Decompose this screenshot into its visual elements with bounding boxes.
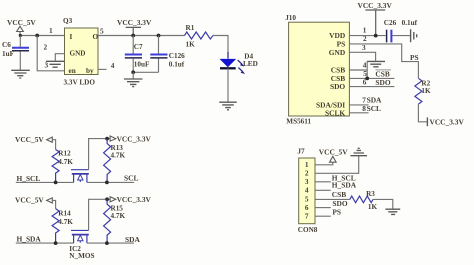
resistor R1 bbox=[185, 24, 213, 49]
wire H_SCL bbox=[16, 181, 74, 183]
svg-text:4: 4 bbox=[111, 61, 115, 70]
ground (LED) bbox=[219, 102, 237, 110]
junction (R15/SDA) bbox=[105, 241, 109, 245]
svg-text:R12: R12 bbox=[58, 150, 71, 158]
svg-text:en: en bbox=[69, 67, 76, 75]
svg-text:GND: GND bbox=[70, 50, 86, 58]
svg-text:0.1uf: 0.1uf bbox=[169, 61, 185, 69]
svg-text:N_MOS: N_MOS bbox=[69, 252, 94, 260]
wire CON8 pin2 to ground bbox=[315, 156, 359, 173]
resistor R13 bbox=[104, 139, 126, 183]
svg-text:J7: J7 bbox=[297, 146, 305, 155]
svg-text:1K: 1K bbox=[421, 87, 431, 95]
svg-text:4.7K: 4.7K bbox=[111, 212, 126, 220]
wire CON8 pin3 bbox=[315, 181, 331, 183]
wire gate to VCC_3.3V rail (lower) bbox=[89, 199, 110, 230]
junction (C126 tap) bbox=[157, 34, 161, 38]
svg-text:2: 2 bbox=[363, 34, 367, 43]
power VCC_3.3V port (J10 top) bbox=[358, 1, 393, 36]
wire J10 pin4 CSB to ground bar and down to pin5 bbox=[349, 61, 367, 78]
svg-text:Q3: Q3 bbox=[63, 17, 73, 25]
junction (C7 tap) bbox=[131, 34, 135, 38]
power VCC_5V port (upper shifter) bbox=[15, 135, 56, 150]
wire ground drop bbox=[132, 72, 134, 78]
svg-text:VCC_3.3V: VCC_3.3V bbox=[117, 18, 152, 27]
wire regulator pin 4 stub (by) bbox=[98, 68, 107, 70]
svg-text:I: I bbox=[70, 33, 73, 41]
ground (J10 pin3) bbox=[367, 61, 385, 66]
svg-text:SDA: SDA bbox=[125, 235, 140, 244]
power VCC_5V port (lower shifter) bbox=[15, 196, 56, 209]
power VCC_3.3V port (lower shifter) bbox=[110, 195, 151, 204]
svg-text:1uF: 1uF bbox=[2, 50, 15, 58]
svg-text:7: 7 bbox=[305, 212, 309, 221]
resistor R2 bbox=[415, 78, 431, 104]
svg-text:C7: C7 bbox=[134, 43, 143, 51]
capacitor C26 bbox=[384, 19, 418, 42]
junction (R13/SCL) bbox=[105, 181, 109, 185]
svg-text:O: O bbox=[93, 33, 99, 41]
junction (CSB pins) bbox=[365, 77, 369, 81]
wire gate to VCC_3.3V rail bbox=[89, 139, 110, 170]
svg-text:5: 5 bbox=[100, 27, 104, 36]
wire CON8 pin5 to R3 bbox=[315, 198, 350, 200]
transistor IC2 N_MOS bbox=[69, 230, 94, 260]
LED D4 bbox=[220, 53, 258, 74]
wire VCC_5V to regulator pin 1 bbox=[20, 35, 65, 37]
svg-text:by: by bbox=[86, 67, 94, 75]
ground (C7/C126) bbox=[124, 79, 143, 87]
svg-text:VCC_5V: VCC_5V bbox=[15, 135, 44, 144]
svg-text:H_SCL: H_SCL bbox=[17, 174, 41, 183]
svg-text:MS5611: MS5611 bbox=[286, 117, 311, 125]
svg-text:LED: LED bbox=[243, 60, 258, 68]
svg-text:J10: J10 bbox=[285, 14, 296, 22]
wire H_SDA bbox=[16, 242, 74, 244]
svg-text:4.7K: 4.7K bbox=[58, 158, 73, 166]
svg-text:PS: PS bbox=[332, 208, 341, 217]
svg-text:CON8: CON8 bbox=[298, 226, 318, 234]
wire regulator pin 2 stub bbox=[55, 54, 64, 61]
junction (R13 top) bbox=[105, 137, 109, 141]
ground (R3) bbox=[385, 209, 400, 214]
capacitor C7 bbox=[125, 36, 150, 73]
svg-text:PS: PS bbox=[410, 53, 419, 62]
svg-text:2: 2 bbox=[44, 43, 48, 52]
wire J10 pin5 CSB net bbox=[349, 77, 394, 79]
junction (cap ground node) bbox=[131, 70, 135, 74]
svg-text:VCC_3.3V: VCC_3.3V bbox=[117, 134, 152, 143]
svg-text:CSB: CSB bbox=[332, 190, 346, 199]
ground (CON8 pin2, flipped up) bbox=[350, 148, 367, 155]
svg-text:SCLK: SCLK bbox=[325, 108, 345, 117]
svg-text:SDO: SDO bbox=[332, 199, 347, 208]
power VCC_3.3V port (R2 bottom) bbox=[427, 117, 464, 126]
svg-text:C6: C6 bbox=[2, 41, 11, 49]
svg-text:VCC_5V: VCC_5V bbox=[15, 196, 44, 205]
svg-text:VCC_3.3V: VCC_3.3V bbox=[430, 118, 465, 127]
svg-text:CSB: CSB bbox=[375, 69, 389, 78]
regulator Q3 3.3V LDO bbox=[63, 17, 99, 87]
svg-text:R1: R1 bbox=[186, 24, 195, 32]
ground (regulator pin 2) bbox=[46, 61, 65, 67]
svg-text:4.7K: 4.7K bbox=[58, 218, 73, 226]
svg-text:4.7K: 4.7K bbox=[111, 151, 126, 159]
svg-text:3: 3 bbox=[362, 43, 366, 52]
resistor R12 bbox=[52, 150, 73, 183]
capacitor C126 bbox=[150, 36, 185, 73]
wire CON8 pin7 bbox=[315, 215, 331, 217]
wire en branch to regulator pin 3 bbox=[37, 36, 64, 71]
connector J10 MS5611 bbox=[285, 14, 349, 125]
wire CON8 pin1 to VCC_5V bbox=[315, 162, 333, 165]
wire SDA bbox=[87, 242, 134, 244]
svg-text:1K: 1K bbox=[368, 203, 378, 211]
wire LED to ground bbox=[227, 68, 229, 101]
wire VCC_3.3V rail from pin 5 to R1 bbox=[98, 35, 185, 37]
wire CON8 pin4 bbox=[315, 189, 331, 191]
junction (en branch on input wire) bbox=[35, 34, 39, 38]
svg-text:VCC_5V: VCC_5V bbox=[7, 18, 36, 27]
svg-text:10uF: 10uF bbox=[134, 61, 150, 69]
power VCC_3.3V port (regulator output) bbox=[117, 18, 152, 35]
svg-text:SCL: SCL bbox=[367, 104, 381, 113]
svg-text:6: 6 bbox=[363, 78, 367, 87]
resistor R14 bbox=[52, 209, 73, 244]
wire C126 bottom to C7 bottom bbox=[133, 71, 158, 73]
wire J10 pin8 SCL bbox=[349, 112, 368, 114]
svg-text:8: 8 bbox=[362, 104, 366, 113]
svg-text:C26: C26 bbox=[384, 19, 397, 27]
wire SCL bbox=[87, 181, 134, 183]
junction (R15 top) bbox=[105, 197, 109, 201]
svg-text:VCC_3.3V: VCC_3.3V bbox=[117, 195, 152, 204]
svg-text:SDO: SDO bbox=[375, 78, 390, 87]
wire C26 to ground bbox=[392, 35, 410, 37]
svg-text:H_SDA: H_SDA bbox=[332, 180, 357, 189]
svg-text:C126: C126 bbox=[169, 52, 185, 60]
svg-text:1K: 1K bbox=[186, 41, 196, 49]
svg-text:4: 4 bbox=[305, 186, 309, 195]
svg-text:VCC_5V: VCC_5V bbox=[319, 148, 348, 157]
wire J10 pin1 VDD to C26 bbox=[349, 35, 385, 37]
power VCC_5V port (regulator input) bbox=[7, 18, 36, 36]
junction (C6 tap) bbox=[19, 34, 22, 37]
transistor Q (upper N-MOS) bbox=[71, 170, 89, 183]
junction (VDD/VCC) bbox=[374, 34, 378, 38]
svg-text:1: 1 bbox=[49, 26, 53, 35]
resistor R15 bbox=[104, 199, 126, 243]
svg-text:R3: R3 bbox=[366, 190, 375, 198]
svg-text:0.1uf: 0.1uf bbox=[402, 19, 418, 27]
svg-text:SCL: SCL bbox=[124, 174, 138, 183]
junction (R14/H_SDA) bbox=[54, 241, 58, 245]
svg-text:GND: GND bbox=[329, 48, 345, 57]
wire R2 to VCC port bbox=[418, 104, 427, 122]
wire R3 to ground bbox=[373, 199, 393, 208]
wire J10 pin6 SDO net bbox=[349, 86, 394, 88]
svg-text:VCC_3.3V: VCC_3.3V bbox=[358, 1, 393, 10]
svg-text:H_SDA: H_SDA bbox=[17, 235, 42, 244]
wire CON8 pin6 bbox=[315, 207, 331, 209]
svg-text:3.3V LDO: 3.3V LDO bbox=[64, 79, 96, 87]
connector J7 CON8 bbox=[297, 146, 317, 234]
junction (R12/H_SCL) bbox=[54, 181, 58, 185]
power VCC_5V port (CON8) bbox=[319, 148, 348, 163]
capacitor C6 bbox=[2, 36, 29, 71]
wire J10 pin2 PS net bbox=[349, 44, 418, 78]
svg-text:R14: R14 bbox=[58, 210, 71, 218]
ground (C26, sideways) bbox=[411, 29, 417, 42]
svg-text:SDO: SDO bbox=[330, 82, 345, 91]
ground (C6) bbox=[11, 70, 30, 78]
resistor R3 bbox=[350, 190, 378, 211]
wire R1 to LED bbox=[213, 36, 228, 59]
wire J10 pin3 GND bbox=[349, 52, 375, 61]
wire J10 pin7 SDA bbox=[349, 104, 368, 106]
power VCC_3.3V port (upper shifter) bbox=[110, 134, 151, 143]
